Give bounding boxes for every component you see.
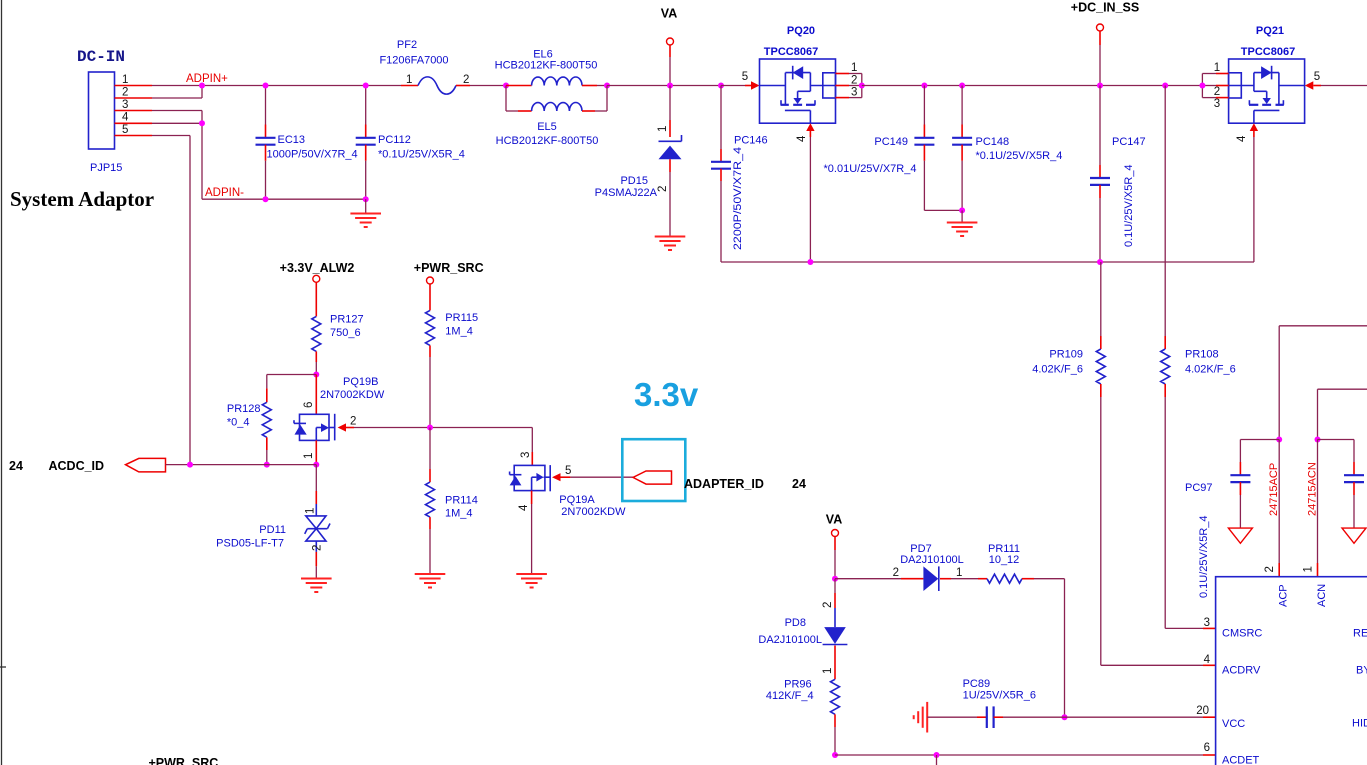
- svg-text:750_6: 750_6: [330, 327, 361, 339]
- svg-text:PR96: PR96: [784, 679, 812, 691]
- svg-text:PR115: PR115: [445, 312, 478, 324]
- capacitor EC13: [256, 83, 358, 203]
- svg-text:3: 3: [520, 452, 532, 458]
- svg-text:ACP: ACP: [1278, 584, 1290, 607]
- wire ACDRV line: [1101, 664, 1216, 666]
- svg-text:6: 6: [303, 402, 315, 408]
- svg-text:1: 1: [822, 668, 834, 674]
- System Adaptor title: [10, 187, 154, 211]
- resistor PR115: [426, 310, 479, 430]
- pin 1 of PQ19B: [303, 440, 319, 467]
- ground below PC112: [350, 199, 381, 227]
- svg-text:3.3v: 3.3v: [634, 376, 699, 413]
- capacitor PC97: [1185, 440, 1279, 599]
- svg-text:PC147: PC147: [1112, 136, 1146, 148]
- ground below PC148: [947, 210, 978, 236]
- svg-text:DA2J10100L: DA2J10100L: [900, 554, 964, 566]
- svg-text:PF2: PF2: [397, 39, 417, 51]
- svg-text:4: 4: [796, 135, 808, 142]
- wire CMSRC line: [1165, 627, 1215, 629]
- svg-text:1: 1: [1303, 566, 1315, 572]
- wire pin3: [152, 111, 202, 124]
- svg-text:PR109: PR109: [1049, 349, 1083, 361]
- svg-text:2: 2: [657, 186, 669, 192]
- svg-text:PQ19B: PQ19B: [343, 376, 378, 388]
- port ACDC_ID: [9, 458, 166, 473]
- svg-text:3: 3: [1204, 617, 1210, 629]
- wire lower bus: [721, 261, 1254, 263]
- wire gate branch: [267, 374, 317, 376]
- svg-text:4: 4: [1204, 654, 1211, 666]
- net label 24715ACP: [1268, 463, 1280, 516]
- svg-text:0.1U/25V/X5R_4: 0.1U/25V/X5R_4: [1123, 164, 1135, 247]
- capacitor PC112: [356, 83, 465, 203]
- power port VA lower: [826, 513, 842, 582]
- svg-text:HID: HID: [1352, 718, 1367, 730]
- pin 4 of PQ19A: [518, 491, 532, 574]
- capacitor PC147: [1090, 86, 1146, 266]
- ground triangle below ACN cap: [1342, 528, 1366, 543]
- svg-text:1: 1: [956, 567, 962, 579]
- svg-text:4.02K/F_6: 4.02K/F_6: [1032, 364, 1083, 376]
- power port VA: [661, 7, 677, 89]
- callout 3.3v: [622, 376, 699, 501]
- svg-text:VA: VA: [661, 7, 677, 21]
- svg-text:*0.01U/25V/X7R_4: *0.01U/25V/X7R_4: [824, 163, 917, 175]
- svg-text:2: 2: [1264, 566, 1276, 572]
- svg-text:1000P/50V/X7R_4: 1000P/50V/X7R_4: [267, 149, 358, 161]
- pin 5 of PQ21: [1305, 71, 1367, 90]
- diode PD7 DA2J10100L: [835, 543, 978, 591]
- svg-text:PC112: PC112: [378, 134, 411, 146]
- svg-text:ACDET: ACDET: [1222, 755, 1260, 765]
- svg-text:5: 5: [742, 71, 748, 83]
- svg-text:TPCC8067: TPCC8067: [764, 46, 818, 58]
- ground left of PC89: [914, 702, 928, 733]
- diode PD15 P4SMAJ22A: [595, 86, 682, 237]
- svg-text:4: 4: [518, 504, 530, 511]
- svg-text:DC-IN: DC-IN: [77, 48, 125, 66]
- svg-text:PC89: PC89: [963, 678, 991, 690]
- svg-text:20: 20: [1196, 705, 1209, 717]
- power port +PWR_SRC: [414, 261, 484, 310]
- svg-text:1: 1: [305, 508, 317, 514]
- svg-text:1: 1: [406, 74, 412, 86]
- svg-text:HCB2012KF-800T50: HCB2012KF-800T50: [495, 60, 598, 72]
- net label ADPIN+: [186, 73, 228, 85]
- svg-text:PJP15: PJP15: [90, 162, 122, 174]
- wire ADPIN- rail: [202, 198, 366, 200]
- resistor PR114: [426, 428, 478, 575]
- svg-text:VCC: VCC: [1222, 718, 1245, 730]
- svg-text:1M_4: 1M_4: [445, 508, 473, 520]
- fuse PF2: [379, 39, 506, 94]
- svg-text:2N7002KDW: 2N7002KDW: [320, 389, 385, 401]
- svg-text:PD11: PD11: [259, 524, 286, 536]
- wire VCC line: [1065, 716, 1216, 718]
- svg-text:1U/25V/X5R_6: 1U/25V/X5R_6: [963, 690, 1036, 702]
- svg-text:2: 2: [851, 75, 857, 87]
- svg-text:3: 3: [1214, 98, 1220, 110]
- wire ACDET bus: [835, 752, 1216, 765]
- svg-text:0.1U/25V/X5R_4: 0.1U/25V/X5R_4: [1198, 515, 1210, 598]
- inductor EL5: [496, 86, 607, 148]
- svg-text:10_12: 10_12: [989, 554, 1020, 566]
- svg-text:1: 1: [657, 126, 669, 132]
- wire ADPIN+ rail: [152, 85, 401, 87]
- svg-text:3: 3: [851, 87, 857, 99]
- svg-text:ADAPTER_ID: ADAPTER_ID: [684, 477, 764, 491]
- svg-text:3: 3: [122, 99, 128, 111]
- svg-text:4.02K/F_6: 4.02K/F_6: [1185, 364, 1236, 376]
- power port +3.3V_ALW2: [280, 261, 355, 316]
- svg-text:2: 2: [350, 416, 356, 428]
- pin 2 of PQ19B: [338, 416, 533, 432]
- junction pin4: [199, 120, 205, 126]
- resistor PR96: [766, 679, 840, 759]
- svg-text:6: 6: [1204, 742, 1210, 754]
- svg-text:PSD05-LF-T7: PSD05-LF-T7: [216, 538, 284, 550]
- wire EL to VA node: [607, 85, 721, 87]
- capacitor PC89: [927, 678, 1064, 728]
- svg-text:2: 2: [1214, 86, 1220, 98]
- mosfet PQ20 TPCC8067: [721, 25, 865, 123]
- svg-text:EL5: EL5: [537, 121, 557, 133]
- resistor PR109: [1032, 262, 1105, 665]
- svg-text:DA2J10100L: DA2J10100L: [758, 634, 822, 646]
- svg-text:ACN: ACN: [1316, 584, 1328, 607]
- svg-text:HCB2012KF-800T50: HCB2012KF-800T50: [496, 135, 599, 147]
- svg-text:1: 1: [122, 74, 128, 86]
- wire pin2: [152, 86, 202, 99]
- svg-text:1: 1: [1214, 62, 1220, 74]
- svg-text:CMSRC: CMSRC: [1222, 628, 1262, 640]
- partial net +PWR_SRC bottom: [149, 756, 219, 765]
- svg-text:2N7002KDW: 2N7002KDW: [561, 506, 626, 518]
- svg-text:2: 2: [312, 545, 324, 551]
- junction ADPIN+: [199, 83, 205, 89]
- svg-text:4: 4: [122, 112, 129, 124]
- svg-text:24715ACN: 24715ACN: [1307, 462, 1319, 516]
- svg-text:EC13: EC13: [278, 134, 306, 146]
- svg-text:BY: BY: [1356, 665, 1367, 677]
- svg-text:PC149: PC149: [874, 136, 908, 148]
- svg-text:P4SMAJ22A: P4SMAJ22A: [595, 187, 658, 199]
- diode PD11 PSD05-LF-T7: [216, 465, 330, 578]
- capacitor PC148: [952, 83, 1062, 214]
- svg-text:412K/F_4: 412K/F_4: [766, 690, 814, 702]
- svg-text:PC97: PC97: [1185, 482, 1213, 494]
- svg-text:+DC_IN_SS: +DC_IN_SS: [1071, 1, 1139, 15]
- svg-text:ACDRV: ACDRV: [1222, 665, 1261, 677]
- svg-text:PR114: PR114: [445, 495, 478, 507]
- svg-text:1M_4: 1M_4: [445, 326, 473, 338]
- mosfet PQ21 TPCC8067: [1199, 25, 1304, 123]
- ground below PD11: [301, 579, 332, 593]
- svg-text:+3.3V_ALW2: +3.3V_ALW2: [280, 261, 355, 275]
- ground below PQ19A: [516, 574, 547, 588]
- svg-text:5: 5: [1314, 71, 1320, 83]
- svg-text:ADPIN-: ADPIN-: [205, 187, 244, 199]
- svg-text:RE: RE: [1353, 628, 1367, 640]
- svg-text:PQ21: PQ21: [1256, 25, 1284, 37]
- wire ACDC_ID net: [166, 462, 317, 468]
- svg-text:System Adaptor: System Adaptor: [10, 187, 154, 211]
- svg-text:TPCC8067: TPCC8067: [1241, 46, 1295, 58]
- inductor EL6: [495, 49, 610, 89]
- capacitor PC149: [824, 83, 963, 211]
- svg-text:PC146: PC146: [734, 135, 768, 147]
- svg-text:5: 5: [122, 124, 128, 136]
- diode PD8 DA2J10100L: [758, 579, 847, 680]
- svg-text:24: 24: [9, 459, 23, 473]
- resistor PR128: [227, 375, 271, 468]
- svg-text:ACDC_ID: ACDC_ID: [49, 459, 105, 473]
- ground below PD15: [655, 237, 686, 251]
- connector PJP15 DC-IN: [77, 48, 152, 174]
- svg-text:*0_4: *0_4: [227, 417, 250, 429]
- pin 4 of PQ20: [796, 123, 815, 265]
- svg-text:2: 2: [822, 602, 834, 608]
- ground below PR114: [415, 574, 446, 588]
- sheet border: [0, 0, 6, 765]
- svg-text:2: 2: [893, 567, 899, 579]
- svg-text:PC148: PC148: [976, 136, 1010, 148]
- svg-text:2: 2: [463, 74, 469, 86]
- svg-text:*0.1U/25V/X5R_4: *0.1U/25V/X5R_4: [976, 150, 1063, 162]
- resistor PR111: [978, 543, 1065, 583]
- svg-text:4: 4: [1236, 135, 1248, 142]
- svg-text:2200P/50V/X7R_4: 2200P/50V/X7R_4: [732, 147, 744, 250]
- svg-text:PQ19A: PQ19A: [559, 494, 595, 506]
- svg-text:VA: VA: [826, 513, 842, 527]
- mosfet PQ19B 2N7002KDW: [294, 375, 385, 441]
- svg-text:1: 1: [851, 62, 857, 74]
- svg-text:+PWR_SRC: +PWR_SRC: [149, 756, 219, 765]
- port ADAPTER_ID: [633, 471, 806, 491]
- svg-text:ADPIN+: ADPIN+: [186, 73, 228, 85]
- svg-text:2: 2: [122, 87, 128, 99]
- svg-text:+PWR_SRC: +PWR_SRC: [414, 261, 484, 275]
- capacitor PC146: [711, 83, 768, 263]
- capacitor ACN filter: [1318, 440, 1365, 529]
- svg-text:PD15: PD15: [620, 175, 648, 187]
- IC U? battery charger: [1196, 577, 1367, 765]
- resistor PR108: [1161, 83, 1236, 629]
- pin 5 of PQ19A: [552, 465, 633, 481]
- svg-text:PD8: PD8: [785, 617, 806, 629]
- svg-text:PQ20: PQ20: [787, 25, 815, 37]
- power port +DC_IN_SS: [1071, 1, 1139, 89]
- svg-text:*0.1U/25V/X5R_4: *0.1U/25V/X5R_4: [378, 149, 465, 161]
- pin 4 of PQ21: [1236, 123, 1258, 262]
- wire ACP feed: [1264, 326, 1367, 577]
- svg-text:24: 24: [792, 477, 806, 491]
- wire pin5 down to ACDC_ID: [152, 136, 190, 465]
- net label 24715ACN: [1307, 462, 1319, 516]
- wire ACN feed: [1303, 389, 1367, 577]
- svg-text:PR127: PR127: [330, 314, 364, 326]
- wire pin4 to ADPIN-: [152, 123, 202, 199]
- wire rail to PC149: [862, 85, 1203, 87]
- svg-text:F1206FA7000: F1206FA7000: [379, 55, 448, 67]
- wire PR111 down to VCC: [1062, 579, 1068, 721]
- mosfet PQ19A 2N7002KDW: [510, 428, 627, 519]
- svg-text:5: 5: [565, 465, 571, 477]
- svg-text:PR108: PR108: [1185, 349, 1219, 361]
- svg-text:PR128: PR128: [227, 403, 261, 415]
- svg-text:1: 1: [303, 453, 315, 459]
- resistor PR127: [312, 314, 364, 378]
- net label ADPIN-: [205, 187, 244, 199]
- svg-text:24715ACP: 24715ACP: [1268, 463, 1280, 516]
- ground triangle below PC97: [1228, 528, 1252, 543]
